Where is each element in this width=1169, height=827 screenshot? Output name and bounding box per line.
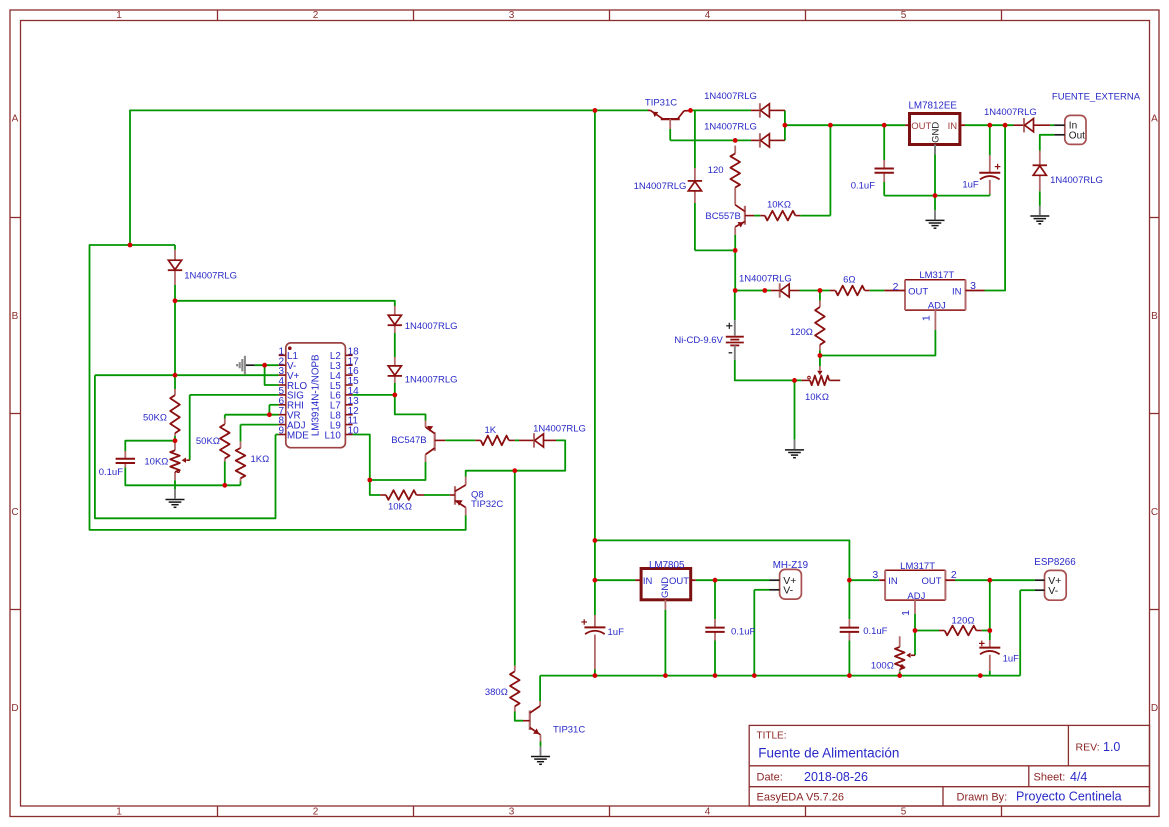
junction: [978, 673, 983, 678]
svg-text:1: 1: [900, 610, 912, 616]
wire: [883, 125, 885, 160]
sensor module MH-Z19: [770, 569, 802, 599]
ground (TIP31C emitter): [531, 746, 550, 764]
wire: [985, 125, 1006, 290]
wire: [714, 580, 716, 619]
wire: [669, 129, 671, 140]
junction: [593, 578, 598, 583]
junction: [392, 393, 397, 398]
svg-text:A: A: [12, 114, 19, 125]
capacitor 1uF (LM7805 in): [581, 615, 605, 670]
transistor Q8 TIP32C: [450, 477, 466, 516]
svg-text:IN: IN: [888, 576, 898, 587]
wire: [370, 462, 426, 480]
junction: [792, 378, 797, 383]
svg-text:5: 5: [901, 10, 907, 21]
junction: [818, 353, 823, 358]
wire: [989, 671, 991, 676]
svg-text:A: A: [1151, 114, 1158, 125]
wire: [445, 439, 475, 441]
wire: [594, 540, 596, 580]
svg-text:1uF: 1uF: [1003, 653, 1020, 664]
svg-text:D: D: [1151, 703, 1158, 714]
wire: [735, 360, 802, 380]
resistor 1K: [475, 436, 515, 446]
connector FUENTE_EXTERNA: [1054, 115, 1086, 144]
svg-text:1uF: 1uF: [608, 627, 625, 638]
svg-text:OUT: OUT: [669, 576, 689, 587]
svg-text:1N4007RLG: 1N4007RLG: [634, 181, 687, 192]
wire: [914, 614, 916, 631]
svg-text:4: 4: [705, 807, 711, 818]
svg-text:1KΩ: 1KΩ: [251, 454, 270, 465]
diode D7 1N4007RLG (BC547B line): [519, 433, 556, 447]
svg-text:2: 2: [893, 281, 899, 293]
junction: [987, 123, 992, 128]
resistor 120Ω (bottom): [939, 626, 982, 636]
ground (level divider): [166, 489, 185, 507]
svg-text:BC547B: BC547B: [391, 435, 426, 446]
svg-text:10: 10: [348, 426, 360, 437]
regulator U2 LM317T (top): [884, 280, 984, 330]
junction: [752, 673, 757, 678]
wire: [883, 182, 885, 196]
wire: [870, 290, 885, 292]
IC U3 LM3914N-1/NOPB: [278, 343, 359, 448]
potentiometer 10KΩ (level adj): [170, 441, 190, 481]
wire: [1050, 124, 1054, 126]
svg-text:120Ω: 120Ω: [790, 327, 813, 338]
svg-text:C: C: [11, 507, 18, 518]
wire: [1020, 589, 1035, 591]
wire: [224, 462, 226, 486]
svg-text:EasyEDA V5.7.26: EasyEDA V5.7.26: [757, 791, 844, 803]
svg-text:3: 3: [509, 807, 515, 818]
svg-text:TIP32C: TIP32C: [471, 499, 503, 510]
junction: [512, 468, 517, 473]
wire: [820, 330, 936, 356]
transistor BC547B: [426, 421, 446, 463]
svg-text:D: D: [11, 703, 18, 714]
wire: [540, 675, 1020, 677]
junction: [987, 578, 992, 583]
svg-text:50KΩ: 50KΩ: [196, 436, 220, 447]
diode D10 1N4007RLG (battery charge line): [771, 283, 800, 297]
resistor 10KΩ (Q8 base): [380, 490, 424, 500]
junction: [882, 123, 887, 128]
ground flag (V- pin, gray arrow): [237, 356, 255, 375]
regulator U5 LM317T (bottom): [879, 570, 955, 614]
title block: [749, 725, 1149, 806]
junction: [267, 412, 272, 417]
svg-text:1uF: 1uF: [962, 180, 979, 191]
wire: [714, 641, 716, 676]
wire: [125, 468, 240, 486]
wire: [915, 630, 939, 632]
svg-text:V-: V-: [1048, 585, 1058, 597]
battery Ni-CD-9.6V: [726, 320, 744, 360]
svg-text:1N4007RLG: 1N4007RLG: [405, 321, 458, 332]
regulator U4 LM7805: [635, 569, 696, 610]
junction: [733, 248, 738, 253]
ground (LM7812 GND): [926, 210, 945, 228]
svg-text:FUENTE_EXTERNA: FUENTE_EXTERNA: [1052, 92, 1141, 103]
wire: [800, 290, 830, 292]
ground (under D8): [1030, 206, 1049, 224]
svg-text:1N4007RLG: 1N4007RLG: [405, 374, 458, 385]
wire: [1019, 590, 1021, 675]
wire: [734, 250, 736, 290]
junction: [713, 578, 718, 583]
diode D8 1N4007RLG (vertical under connector): [1033, 151, 1047, 192]
wire: [785, 124, 905, 126]
wire: [595, 579, 635, 581]
wire: [190, 394, 279, 396]
svg-text:GND: GND: [930, 122, 941, 143]
transistor TIP31C (top): [648, 110, 691, 129]
svg-text:0.1uF: 0.1uF: [851, 180, 875, 191]
wire: [696, 579, 770, 581]
wire: [255, 364, 279, 366]
diode D4 1N4007RLG (left chain): [168, 250, 182, 285]
junction: [818, 288, 823, 293]
wire: [691, 110, 695, 168]
svg-text:1K: 1K: [484, 425, 496, 436]
svg-text:2: 2: [313, 807, 319, 818]
svg-text:1: 1: [116, 10, 122, 21]
svg-text:Proyecto Centinela: Proyecto Centinela: [1016, 790, 1122, 804]
wire: [395, 395, 426, 421]
svg-text:10KΩ: 10KΩ: [767, 199, 791, 210]
wire: [95, 374, 279, 376]
svg-text:LM7812EE: LM7812EE: [908, 101, 957, 112]
wire: [594, 670, 596, 676]
junction: [783, 123, 788, 128]
wire: [130, 110, 648, 245]
junction: [1003, 123, 1008, 128]
diode D9 1N4007RLG (to connector): [1014, 118, 1051, 132]
svg-text:10KΩ: 10KΩ: [388, 502, 412, 513]
wire: [819, 291, 821, 301]
wire: [989, 580, 991, 630]
svg-text:OUT: OUT: [911, 121, 931, 132]
wire: [241, 424, 279, 426]
wire: [819, 350, 821, 355]
regulator U1 LM7812EE: [905, 114, 965, 155]
svg-text:B: B: [12, 311, 19, 322]
capacitor 1uF (ESP8266): [979, 640, 1000, 671]
wire: [515, 712, 523, 721]
resistor 380Ω: [510, 666, 520, 712]
wire: [353, 435, 370, 481]
wire: [965, 124, 1014, 126]
wire: [934, 145, 936, 211]
wire: [914, 631, 916, 656]
wire: [174, 301, 176, 375]
wire: [539, 676, 541, 701]
svg-text:3: 3: [509, 10, 515, 21]
wire: [848, 580, 850, 619]
wire: [370, 480, 380, 495]
wire: [269, 404, 278, 406]
wire: [268, 405, 270, 415]
svg-text:50KΩ: 50KΩ: [143, 412, 167, 423]
svg-text:MH-Z19: MH-Z19: [773, 560, 808, 571]
resistor 10KΩ (BC557B base): [760, 211, 800, 221]
wire: [800, 215, 830, 217]
svg-text:1N4007RLG: 1N4007RLG: [984, 107, 1037, 118]
svg-text:ESP8266: ESP8266: [1034, 557, 1076, 568]
wire: [884, 195, 990, 197]
capacitor 0.1uF (left): [116, 451, 135, 468]
wire: [189, 395, 191, 460]
svg-text:ADJ: ADJ: [907, 591, 925, 602]
svg-text:LM3914N-1/NOPB: LM3914N-1/NOPB: [310, 354, 321, 436]
svg-text:2018-08-26: 2018-08-26: [804, 770, 868, 784]
svg-text:3: 3: [872, 569, 878, 581]
svg-text:3: 3: [970, 280, 976, 292]
wire: [794, 380, 796, 439]
wire: [849, 579, 879, 581]
svg-text:Sheet:: Sheet:: [1034, 772, 1066, 784]
svg-text:1N4007RLG: 1N4007RLG: [704, 91, 757, 102]
svg-text:Out: Out: [1069, 131, 1085, 142]
diode D2 1N4007RLG (second row): [751, 133, 785, 147]
wire: [174, 245, 176, 250]
svg-text:C: C: [1151, 507, 1158, 518]
wire: [540, 742, 542, 747]
junction: [897, 673, 902, 678]
resistor 50KΩ (lower): [220, 419, 230, 462]
wire: [394, 333, 396, 357]
junction: [663, 673, 668, 678]
svg-text:OUT: OUT: [922, 576, 942, 587]
wire: [829, 125, 831, 215]
svg-text:OUT: OUT: [908, 286, 928, 297]
junction: [173, 298, 178, 303]
wire: [515, 439, 519, 441]
junction: [733, 138, 738, 143]
svg-text:9: 9: [278, 426, 284, 437]
wire: [174, 480, 176, 485]
svg-text:TIP31C: TIP31C: [553, 724, 585, 735]
wire: [734, 291, 736, 321]
capacitor 0.1uF (LM317 in): [840, 619, 859, 640]
wire: [694, 203, 696, 250]
svg-text:2: 2: [313, 10, 319, 21]
junction: [913, 628, 918, 633]
wire: [225, 414, 279, 416]
wire: [595, 540, 850, 580]
wire: [424, 494, 450, 496]
junction: [173, 438, 178, 443]
svg-text:TIP31C: TIP31C: [645, 98, 677, 109]
wire: [394, 383, 396, 395]
svg-text:TITLE:: TITLE:: [757, 731, 787, 742]
svg-text:1N4007RLG: 1N4007RLG: [739, 273, 792, 284]
junction: [762, 288, 767, 293]
junction: [688, 108, 693, 113]
svg-text:4: 4: [705, 10, 711, 21]
svg-text:0.1uF: 0.1uF: [863, 626, 887, 637]
svg-text:ADJ: ADJ: [928, 301, 946, 312]
wire: [1040, 135, 1054, 151]
resistor 120: [730, 146, 740, 196]
wire: [695, 249, 735, 251]
wire: [174, 285, 176, 301]
wire: [735, 290, 771, 292]
potentiometer 10KΩ (charge adj): [801, 366, 840, 385]
wire: [265, 365, 279, 385]
wire: [989, 631, 991, 641]
svg-text:6Ω: 6Ω: [843, 274, 855, 285]
svg-text:1N4007RLG: 1N4007RLG: [184, 270, 237, 281]
junction: [593, 673, 598, 678]
wire: [989, 194, 991, 195]
junction: [828, 123, 833, 128]
wire: [175, 301, 395, 306]
svg-text:120Ω: 120Ω: [952, 615, 975, 626]
svg-text:120: 120: [708, 165, 724, 176]
svg-text:IN: IN: [643, 576, 653, 587]
wire: [90, 245, 466, 530]
junction: [262, 363, 267, 368]
svg-text:1: 1: [921, 315, 933, 321]
wire: [753, 590, 755, 676]
junction: [593, 538, 598, 543]
resistor 6Ω: [830, 286, 870, 296]
junction: [128, 243, 133, 248]
svg-text:BC557B: BC557B: [705, 211, 740, 222]
svg-text:Ni-CD-9.6V: Ni-CD-9.6V: [674, 335, 723, 346]
junction: [222, 483, 227, 488]
wire: [989, 125, 991, 155]
junction: [987, 628, 992, 633]
resistor 50KΩ (upper): [170, 389, 180, 436]
svg-text:1: 1: [116, 807, 122, 818]
svg-text:L10: L10: [324, 430, 341, 441]
wire: [174, 375, 176, 389]
resistor 1KΩ: [236, 441, 246, 481]
diode D1 1N4007RLG (top row): [751, 103, 785, 117]
wire: [819, 356, 821, 367]
wire: [594, 110, 596, 540]
svg-text:0.1uF: 0.1uF: [731, 627, 755, 638]
wire: [240, 482, 242, 486]
svg-text:1N4007RLG: 1N4007RLG: [704, 122, 757, 133]
svg-text:B: B: [1151, 311, 1158, 322]
transistor TIP31C (bottom): [523, 701, 541, 742]
wire: [95, 375, 276, 518]
svg-text:2: 2: [951, 569, 957, 581]
svg-text:4/4: 4/4: [1070, 770, 1087, 784]
svg-text:380Ω: 380Ω: [485, 687, 508, 698]
wire: [695, 109, 751, 111]
diode D5 1N4007RLG (stack upper): [388, 306, 402, 333]
ground (charge divider): [785, 440, 804, 458]
wire: [670, 139, 751, 141]
junction: [593, 108, 598, 113]
svg-text:5: 5: [901, 807, 907, 818]
wire: [174, 485, 176, 489]
wire: [466, 440, 566, 476]
wire: [734, 235, 736, 251]
wire: [664, 610, 666, 676]
svg-text:100Ω: 100Ω: [871, 660, 894, 671]
svg-text:1N4007RLG: 1N4007RLG: [533, 423, 586, 434]
wire: [754, 589, 769, 591]
resistor 120Ω: [815, 301, 825, 351]
svg-text:MDE: MDE: [287, 430, 309, 441]
svg-text:IN: IN: [952, 286, 962, 297]
junction: [933, 193, 938, 198]
wire: [276, 434, 279, 436]
wire: [594, 580, 596, 615]
svg-text:LM317T: LM317T: [919, 270, 954, 281]
junction: [847, 673, 852, 678]
svg-text:1.0: 1.0: [1103, 740, 1120, 754]
wire: [240, 425, 242, 442]
capacitor 0.1uF (MH-Z19): [705, 619, 724, 640]
svg-text:1N4007RLG: 1N4007RLG: [1050, 175, 1103, 186]
diode D6 1N4007RLG (stack lower): [388, 357, 402, 383]
capacitor 1uF (LM7812 in): [979, 155, 1000, 194]
svg-text:REV:: REV:: [1076, 742, 1100, 754]
svg-text:LM317T: LM317T: [900, 561, 935, 572]
module ESP8266: [1035, 570, 1066, 600]
wire: [353, 394, 395, 396]
diode D3 1N4007RLG (vertical, x=695): [688, 168, 702, 203]
svg-text:GND: GND: [660, 577, 671, 598]
wire: [1039, 191, 1041, 206]
svg-text:Date:: Date:: [757, 772, 783, 784]
wire: [982, 630, 990, 632]
wire: [754, 215, 760, 217]
svg-text:Drawn By:: Drawn By:: [957, 791, 1008, 803]
transistor BC557B: [735, 195, 754, 235]
wire: [224, 415, 226, 419]
wire: [848, 641, 850, 676]
wire: [514, 471, 516, 666]
svg-text:V-: V-: [783, 585, 793, 597]
wire: [955, 579, 1035, 581]
svg-text:0.1uF: 0.1uF: [99, 467, 123, 478]
svg-text:Fuente de Alimentación: Fuente de Alimentación: [758, 746, 899, 761]
wire: [125, 441, 175, 451]
junction: [733, 288, 738, 293]
wire: [784, 110, 786, 140]
potentiometer 100Ω: [895, 636, 915, 672]
svg-text:IN: IN: [948, 121, 958, 132]
junction: [713, 673, 718, 678]
svg-text:LM7805: LM7805: [649, 560, 685, 571]
junction: [847, 578, 852, 583]
wire: [174, 436, 176, 441]
svg-text:10KΩ: 10KΩ: [144, 456, 168, 467]
junction: [173, 373, 178, 378]
capacitor 0.1uF (LM7812 out): [875, 160, 894, 182]
wire: [899, 672, 901, 676]
junction: [367, 478, 372, 483]
svg-text:10KΩ: 10KΩ: [805, 392, 829, 403]
